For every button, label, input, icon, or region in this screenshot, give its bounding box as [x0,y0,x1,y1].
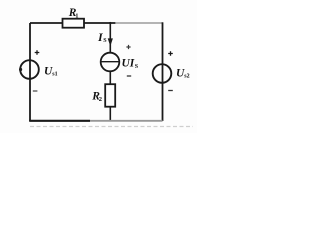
wire bottom faded segment [90,120,163,122]
label U_S1 [44,65,58,77]
wire top-left segment [30,22,62,24]
svg-text:s2: s2 [184,74,189,80]
current source IS (circle with bar) [101,53,120,72]
wire right vertical [162,22,164,121]
wire bottom dark segment [29,120,90,122]
svg-text:S: S [135,64,139,70]
wire top far-right faded [115,22,163,24]
label U I_S [122,58,139,71]
svg-text:2: 2 [99,96,102,103]
polarity + of US1 [35,50,40,55]
svg-text:UI: UI [122,58,135,70]
label I_S [97,30,107,44]
svg-text:S: S [103,38,107,44]
label U_S2 [176,67,190,79]
wire top-right segment [84,22,116,24]
polarity + of UIS [126,45,130,49]
node top junction [109,22,111,24]
polarity - of US2 [168,90,173,92]
polarity - of UIS [127,75,131,77]
wire middle branch upper with current arrow I_S [108,23,113,53]
resistor R2 [91,84,115,107]
wire left vertical [29,23,31,121]
voltage source US1 [19,60,39,79]
svg-text:1: 1 [75,13,78,20]
resistor R1 [63,7,85,28]
voltage source US2 [153,64,172,83]
polarity + of US2 [168,51,173,56]
svg-text:s1: s1 [52,72,57,78]
wire middle branch lower [109,71,111,84]
wire middle branch to bottom [109,107,111,121]
polarity - of US1 [33,90,38,92]
